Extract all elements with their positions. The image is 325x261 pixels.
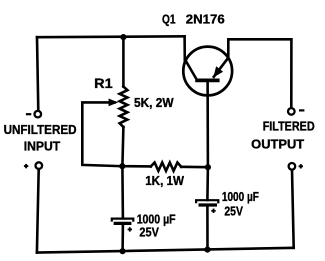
- svg-text:UNFILTERED: UNFILTERED: [4, 123, 77, 137]
- wire transistor emitter to output corner: [228, 39, 291, 108]
- capacitor C2 1000uF 25V: [196, 200, 218, 205]
- wire C2 bottom lead: [206, 206, 209, 249]
- svg-text:INPUT: INPUT: [24, 140, 61, 154]
- wire R1 bottom lead: [122, 127, 123, 166]
- svg-text:25V: 25V: [224, 204, 243, 219]
- resistor 1K body: [151, 163, 181, 171]
- transistor Q1: [183, 47, 232, 96]
- terminal input positive: [36, 162, 43, 169]
- wire 1K right lead: [181, 166, 208, 169]
- minus sign output: [299, 109, 304, 111]
- minus sign input: [26, 113, 31, 115]
- capacitor C1 1000uF 25V: [112, 219, 134, 224]
- terminal output positive: [289, 163, 296, 170]
- plus sign C2: [211, 209, 215, 213]
- node base junction: [205, 164, 211, 170]
- terminal unfiltered input negative: [35, 111, 42, 118]
- wire input positive drop: [37, 169, 39, 253]
- svg-text:FILTERED: FILTERED: [263, 119, 315, 133]
- svg-text:OUTPUT: OUTPUT: [251, 138, 304, 152]
- wire mid rail to 1K: [122, 165, 151, 168]
- wiper arrowhead of R1: [109, 100, 116, 106]
- plus sign C1: [128, 227, 132, 231]
- svg-text:1000 µF: 1000 µF: [222, 189, 259, 204]
- wire R1 wiper arm: [82, 102, 122, 166]
- plus sign input: [24, 164, 28, 168]
- wire R1 top lead: [122, 37, 125, 86]
- node bottom rail junction right: [204, 247, 210, 253]
- node bottom rail junction left: [120, 248, 126, 254]
- svg-text:25V: 25V: [139, 224, 159, 239]
- svg-text:5K, 2W: 5K, 2W: [134, 95, 174, 110]
- node top rail junction: [120, 34, 126, 40]
- node mid junction: [119, 163, 125, 169]
- wire C1 bottom lead: [121, 225, 124, 251]
- terminal filtered output negative: [288, 108, 295, 115]
- wire output negative drop is above; output positive drop: [292, 170, 294, 248]
- svg-text:1K, 1W: 1K, 1W: [145, 173, 184, 188]
- svg-text:Q1: Q1: [162, 11, 176, 26]
- resistor R1 potentiometer body: [120, 87, 128, 128]
- wire Q1 base lead: [206, 80, 209, 200]
- wire C1 top lead: [121, 166, 124, 218]
- plus sign output: [299, 164, 303, 168]
- svg-text:R1: R1: [94, 76, 113, 91]
- wire bottom rail: [37, 248, 294, 253]
- svg-text:2N176: 2N176: [186, 11, 225, 26]
- wire left input drop: [37, 37, 38, 110]
- wire top-left rail: [37, 35, 185, 39]
- wire transistor collector lead: [183, 36, 186, 61]
